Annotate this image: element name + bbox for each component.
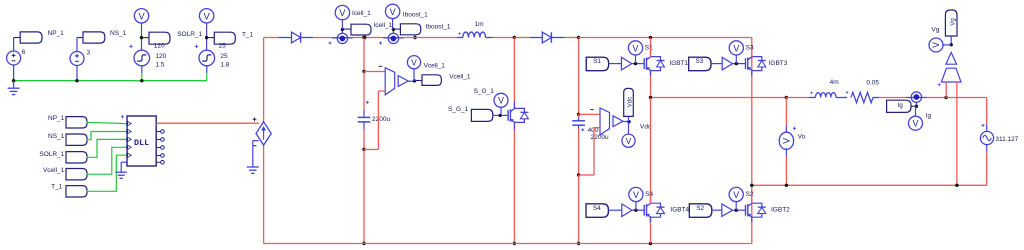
svg-text:Vcell_1: Vcell_1 <box>424 62 446 69</box>
svg-text:S4: S4 <box>593 205 601 212</box>
svg-text:DLL: DLL <box>134 138 149 148</box>
svg-text:V: V <box>204 11 210 21</box>
svg-text:IGBT3: IGBT3 <box>769 60 788 67</box>
svg-text:Vo: Vo <box>798 133 806 140</box>
svg-text:SOLR_1: SOLR_1 <box>39 151 64 158</box>
svg-text:V: V <box>411 58 417 67</box>
svg-text:S3: S3 <box>695 58 703 65</box>
svg-text:S_G_1: S_G_1 <box>474 88 495 95</box>
svg-text:NP_1: NP_1 <box>48 30 65 37</box>
svg-text:25: 25 <box>219 42 227 49</box>
svg-text:S1: S1 <box>645 45 653 52</box>
svg-text:V: V <box>913 119 919 129</box>
svg-text:S_G_1: S_G_1 <box>448 106 469 113</box>
svg-text:V: V <box>931 42 941 48</box>
svg-text:NP_1: NP_1 <box>48 115 65 122</box>
svg-text:Vg: Vg <box>931 26 939 33</box>
svg-text:V: V <box>633 43 639 53</box>
svg-text:2200u: 2200u <box>372 116 390 123</box>
svg-text:IGBT1: IGBT1 <box>669 60 688 67</box>
svg-text:0.05: 0.05 <box>866 79 879 86</box>
svg-text:311.127: 311.127 <box>995 136 1018 143</box>
svg-text:Icell_1: Icell_1 <box>352 10 371 17</box>
svg-text:V: V <box>498 96 504 106</box>
svg-text:Vcell_1: Vcell_1 <box>43 167 65 174</box>
svg-text:NS_1: NS_1 <box>110 30 127 37</box>
svg-text:IGBT4: IGBT4 <box>670 206 689 213</box>
svg-text:IGBT2: IGBT2 <box>771 206 790 213</box>
svg-text:S2: S2 <box>746 191 754 198</box>
svg-text:120: 120 <box>154 42 165 49</box>
svg-text:S4: S4 <box>645 191 653 198</box>
svg-text:V: V <box>390 7 396 17</box>
svg-text:1.5: 1.5 <box>155 62 164 69</box>
svg-text:V: V <box>782 138 792 144</box>
svg-text:Ig: Ig <box>926 113 932 120</box>
svg-text:Icell_1: Icell_1 <box>374 22 393 29</box>
svg-text:S1: S1 <box>593 58 601 65</box>
svg-text:3: 3 <box>87 50 91 57</box>
svg-text:S3: S3 <box>746 45 754 52</box>
svg-text:S2: S2 <box>696 205 704 212</box>
svg-text:Iboost_1: Iboost_1 <box>403 11 428 18</box>
svg-text:4m: 4m <box>830 79 839 86</box>
svg-text:SOLR_1: SOLR_1 <box>177 31 202 38</box>
svg-text:V: V <box>733 43 739 53</box>
svg-text:T_1: T_1 <box>242 32 254 39</box>
svg-text:NS_1: NS_1 <box>48 133 65 140</box>
svg-text:V: V <box>138 11 144 21</box>
svg-text:25: 25 <box>220 53 228 60</box>
svg-text:6: 6 <box>22 49 26 56</box>
svg-text:V: V <box>733 190 739 200</box>
svg-text:Vdc: Vdc <box>627 97 634 108</box>
svg-text:1.8: 1.8 <box>220 62 229 69</box>
svg-text:120: 120 <box>155 53 166 60</box>
svg-text:Vg: Vg <box>949 18 956 26</box>
svg-text:1m: 1m <box>475 21 484 28</box>
svg-text:Iboost_1: Iboost_1 <box>426 23 451 30</box>
svg-text:T_1: T_1 <box>51 183 63 190</box>
svg-text:Ig: Ig <box>898 102 904 109</box>
svg-text:V: V <box>626 137 632 146</box>
svg-text:V: V <box>339 8 345 18</box>
svg-text:V: V <box>633 190 639 200</box>
svg-text:Vcell_1: Vcell_1 <box>449 74 471 81</box>
